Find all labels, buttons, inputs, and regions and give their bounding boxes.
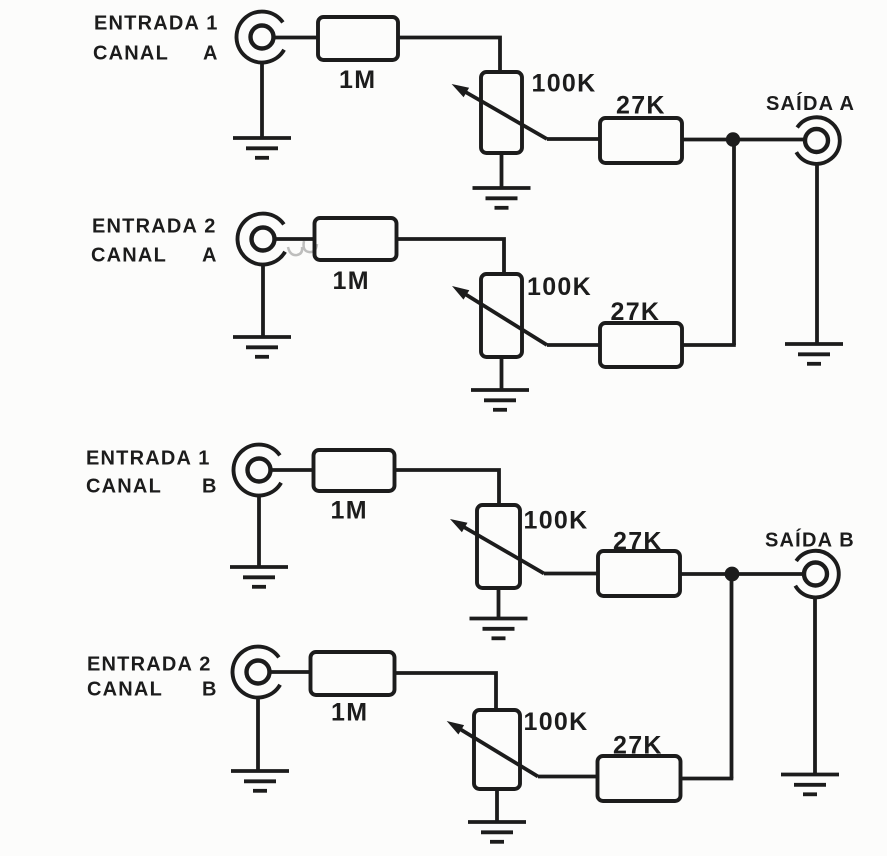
ground at P1 <box>473 188 531 208</box>
potentiometer P3 wiper arrow <box>450 519 544 574</box>
label ENTRADA 2 CANAL A <box>91 216 218 267</box>
wire J4 to R7 <box>270 670 311 674</box>
svg-text:1M: 1M <box>331 699 368 727</box>
svg-text:A: A <box>202 245 218 267</box>
ground at J1 <box>233 138 291 158</box>
input jack J4 ENTRADA 2 CANAL B <box>233 647 281 698</box>
potentiometer P4 100K body <box>474 710 520 789</box>
potentiometer P1 wiper arrow <box>452 84 547 139</box>
junction node A <box>726 132 740 146</box>
potentiometer P4 wiper arrow <box>447 721 538 777</box>
wire R8 to junction B <box>681 777 734 781</box>
wire J3 to R5 <box>271 468 314 472</box>
wire J2 to R3 <box>275 237 315 241</box>
ground at J2 <box>233 337 291 357</box>
wire J2 to ground <box>261 264 265 337</box>
wire J1 to R1 <box>274 36 318 40</box>
wire P3 bottom to ground <box>497 588 501 619</box>
svg-text:100K: 100K <box>527 273 592 301</box>
svg-text:SAÍDA A: SAÍDA A <box>766 92 855 115</box>
wire R5 to P3 top <box>395 470 500 505</box>
wire J1 to ground <box>260 62 264 138</box>
svg-text:CANAL: CANAL <box>86 476 162 498</box>
resistor R5 1M <box>314 450 395 491</box>
wire junction B down to R8 output <box>730 574 734 779</box>
svg-text:27K: 27K <box>611 298 661 326</box>
resistor R8 27K <box>598 756 681 801</box>
potentiometer P3 100K body <box>477 505 520 588</box>
ground at J3 <box>230 567 288 587</box>
label ENTRADA 2 CANAL B <box>87 654 218 701</box>
svg-text:SAÍDA B: SAÍDA B <box>765 529 855 552</box>
label ENTRADA 1 CANAL A <box>93 13 219 65</box>
resistor R3 1M <box>315 218 397 260</box>
potentiometer P2 100K body <box>481 274 522 357</box>
svg-text:1M: 1M <box>339 66 376 94</box>
svg-text:ENTRADA 2: ENTRADA 2 <box>92 216 217 238</box>
ground at P2 <box>471 390 529 410</box>
ground at SAIDA A <box>785 344 843 364</box>
potentiometer P1 100K body <box>481 72 522 153</box>
ground at J4 <box>231 771 289 791</box>
wire P1 bottom to ground <box>500 153 504 188</box>
wire R3 to P2 top <box>397 239 505 274</box>
wire P2 bottom to ground <box>500 357 504 390</box>
svg-text:100K: 100K <box>524 507 589 535</box>
wire R2 to output jack SAIDA A <box>682 138 806 142</box>
svg-text:ENTRADA 1: ENTRADA 1 <box>86 448 211 470</box>
resistor R1 1M <box>318 17 398 60</box>
wire J4 to ground <box>256 697 260 771</box>
resistor R7 1M <box>311 652 395 695</box>
wire junction A down to R4 output <box>732 140 736 346</box>
wire R1 to P1 top <box>398 38 500 73</box>
potentiometer P2 wiper arrow <box>452 286 547 345</box>
input jack J1 ENTRADA 1 CANAL A <box>237 12 285 63</box>
svg-text:27K: 27K <box>613 732 663 760</box>
svg-text:CANAL: CANAL <box>87 679 163 701</box>
svg-text:CANAL: CANAL <box>93 43 169 65</box>
wire P2 wiper to R4 <box>547 343 601 347</box>
output jack SAIDA A <box>796 117 839 164</box>
ground at P4 <box>468 822 526 842</box>
svg-text:27K: 27K <box>613 528 663 556</box>
svg-text:CANAL: CANAL <box>91 245 167 267</box>
svg-text:27K: 27K <box>616 92 666 120</box>
svg-text:1M: 1M <box>331 497 368 525</box>
svg-text:ENTRADA 1: ENTRADA 1 <box>94 13 219 35</box>
resistor R6 27K <box>598 551 680 596</box>
wire SAIDA A jack to ground <box>815 164 819 343</box>
svg-text:ENTRADA 2: ENTRADA 2 <box>87 654 212 676</box>
wire R6 to output jack SAIDA B <box>680 572 805 576</box>
wire R4 to junction A <box>682 343 736 347</box>
label ENTRADA 1 CANAL B <box>86 448 218 498</box>
svg-text:A: A <box>203 43 219 65</box>
ground at P3 <box>470 619 528 639</box>
wire P4 wiper to R8 <box>538 775 599 779</box>
wire R7 to P4 top <box>395 673 497 710</box>
input jack J3 ENTRADA 1 CANAL B <box>234 445 282 496</box>
svg-text:100K: 100K <box>524 708 589 736</box>
wire J3 to ground <box>257 495 261 567</box>
wire SAIDA B jack to ground <box>813 598 817 775</box>
svg-text:B: B <box>202 476 218 498</box>
wire P4 bottom to ground <box>495 789 499 822</box>
input jack J2 ENTRADA 2 CANAL A <box>238 214 286 265</box>
svg-text:1M: 1M <box>333 267 370 295</box>
scan smudge artifact <box>288 241 317 255</box>
svg-text:B: B <box>202 679 218 701</box>
resistor R4 27K <box>600 323 682 367</box>
output jack SAIDA B <box>795 551 838 598</box>
wire P3 wiper to R6 <box>544 572 599 576</box>
junction node B <box>725 567 740 582</box>
svg-text:100K: 100K <box>532 70 597 98</box>
wire P1 wiper to R2 <box>547 137 601 141</box>
resistor R2 27K <box>600 118 682 163</box>
ground at SAIDA B <box>781 775 839 795</box>
